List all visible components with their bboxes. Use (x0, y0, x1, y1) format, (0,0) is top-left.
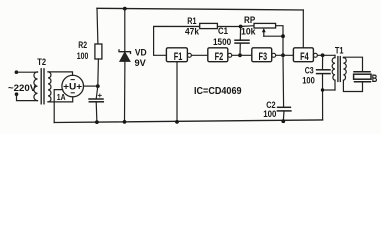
svg-text:R1: R1 (187, 16, 196, 26)
wire T1 primary bottom to ground (323, 89, 336, 91)
wire oscillator feedback loop (154, 26, 254, 56)
node VD ground junction (123, 120, 127, 124)
capacitor C2 (282, 55, 285, 107)
inverter F3 (252, 48, 272, 62)
svg-text:T1: T1 (335, 46, 344, 56)
transformer T1 secondary winding (343, 58, 346, 81)
resistor R1 (200, 23, 218, 28)
svg-text:B: B (372, 73, 378, 85)
capacitor C3 (322, 55, 324, 70)
wire F3 to F4 (276, 54, 294, 56)
node C3 junction (321, 53, 325, 57)
bridge rectifier U (62, 75, 84, 97)
wire R2 to bridge node (97, 59, 100, 86)
potentiometer RP (254, 23, 276, 28)
svg-text:47k: 47k (185, 26, 200, 36)
node filter cap ground (95, 120, 99, 124)
zener diode VD (119, 50, 131, 54)
wire bridge plus output (84, 85, 98, 87)
node VD top junction (123, 7, 127, 11)
svg-text:C1: C1 (218, 26, 228, 36)
node RP wiper junction (281, 34, 285, 38)
wire bridge minus to ground (54, 90, 62, 123)
resistor R2 (95, 44, 102, 59)
svg-text:VD: VD (135, 47, 147, 57)
svg-text:F4: F4 (300, 51, 309, 63)
node AC terminal top (15, 70, 19, 74)
wire mains live (16, 71, 37, 73)
wire F1 output branch to ground (176, 62, 178, 122)
wire RP right end down (276, 26, 283, 56)
wire T1 secondary top to B (343, 57, 362, 72)
node R1 C1 RP junction (239, 25, 243, 29)
svg-text:10k: 10k (241, 26, 256, 36)
svg-text:C3: C3 (305, 65, 314, 75)
node RP C2 junction (281, 53, 285, 57)
svg-text:+U+: +U+ (63, 81, 82, 91)
wire R2 branch upper (96, 8, 99, 44)
svg-text:~220V: ~220V (8, 83, 37, 94)
piezo sounder B (354, 71, 370, 73)
wire T1 secondary bottom to B (343, 80, 362, 91)
inverter F4 (293, 48, 313, 62)
svg-text:F1: F1 (174, 51, 183, 63)
svg-text:100: 100 (263, 109, 276, 119)
svg-text:IC=CD4069: IC=CD4069 (194, 85, 242, 97)
svg-text:100: 100 (302, 75, 315, 85)
wire VD branch (124, 9, 126, 52)
inverter F1 (166, 48, 187, 62)
wire top supply rail (97, 8, 303, 10)
node bridge output junction (96, 84, 100, 88)
capacitor filter electrolytic (96, 86, 98, 99)
svg-text:F2: F2 (215, 51, 224, 63)
svg-text:100: 100 (77, 51, 89, 61)
node AC terminal bottom (15, 92, 19, 96)
node C1 bottom junction (238, 53, 242, 57)
wiper arrow RP (263, 31, 265, 37)
svg-text:T2: T2 (37, 57, 46, 67)
wire mains neutral (17, 94, 38, 100)
wire secondary bottom to bridge (48, 97, 73, 102)
wire F4 output (317, 54, 335, 56)
transformer T1 core (337, 57, 339, 82)
capacitor C1 (239, 27, 241, 41)
wire F1 to F2 (191, 54, 207, 56)
node F1 branch ground (175, 120, 179, 124)
wire F2 to F3 (232, 54, 252, 56)
wire secondary top to bridge (48, 72, 73, 75)
svg-text:F3: F3 (259, 51, 268, 63)
wire F4 power feed drop (302, 10, 304, 48)
svg-text:1A: 1A (57, 92, 66, 102)
node C2 ground (281, 119, 285, 123)
wire bottom ground rail (54, 120, 322, 123)
transformer T1 primary winding (334, 55, 336, 57)
svg-text:RP: RP (244, 15, 255, 25)
transformer T2 core (40, 69, 42, 104)
svg-text:9V: 9V (135, 58, 146, 68)
transformer T2 primary winding (34, 72, 38, 101)
svg-text:1500: 1500 (213, 37, 231, 47)
transformer T2 secondary winding (48, 72, 51, 102)
inverter F2 (208, 48, 228, 62)
svg-text:R2: R2 (78, 40, 87, 50)
